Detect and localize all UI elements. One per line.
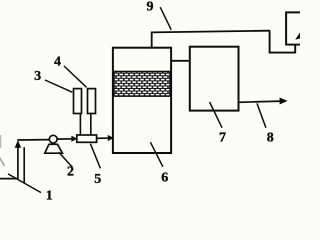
arrowhead: into mixer 5 <box>71 136 77 142</box>
svg-text:6: 6 <box>161 170 168 185</box>
leader line 3 <box>45 80 72 92</box>
wire: raw water inlet horizontal from left edge <box>0 178 18 180</box>
scan artifact: left edge gray marks <box>0 135 2 148</box>
leader line 9 <box>160 7 171 30</box>
dosing mixer 5 <box>77 135 97 142</box>
wire: column 6 to box 7 <box>171 60 190 62</box>
svg-text:1: 1 <box>46 188 53 200</box>
wire: up into condenser box <box>294 44 296 53</box>
wire: outlet 8 line <box>239 101 282 102</box>
arrowhead: feed up into suction line <box>15 140 22 148</box>
leader line 5 <box>90 144 100 169</box>
leader line 1 <box>8 174 41 193</box>
wire: pump discharge line <box>57 138 74 140</box>
wire: feed riser vertical <box>17 142 19 180</box>
svg-text:7: 7 <box>219 130 226 145</box>
svg-text:5: 5 <box>94 172 101 187</box>
tank 4 <box>88 89 96 114</box>
svg-text:4: 4 <box>54 55 61 70</box>
svg-text:8: 8 <box>267 131 274 146</box>
leader line 7 <box>210 102 222 128</box>
wire: riser from column 6 top <box>151 32 153 49</box>
wire 9: step down vertical <box>269 30 271 52</box>
wire: stem from tank 4 to mixer 5 <box>90 114 92 136</box>
condenser box top-right (cut by edge) <box>286 12 300 45</box>
column 6 packing band <box>114 72 170 97</box>
pump 2 circle <box>49 135 57 143</box>
svg-text:3: 3 <box>34 69 41 84</box>
column 6 vessel <box>113 48 171 153</box>
svg-text:2: 2 <box>67 165 74 180</box>
leader line 4 <box>64 66 87 87</box>
arrowhead: into column 6 <box>108 135 114 141</box>
condenser box bottom edge <box>285 44 300 46</box>
arrowhead: outlet 8 <box>280 98 288 105</box>
wire: stem from tank 3 to mixer 5 <box>79 114 81 136</box>
leader line 2 <box>59 152 73 167</box>
svg-text:9: 9 <box>147 0 154 14</box>
leader line 6 <box>150 142 163 167</box>
wire: mixer 5 to column 6 <box>97 137 111 139</box>
pump 2 base trapezoid <box>45 144 63 153</box>
wire 9: lower horizontal <box>269 52 296 54</box>
box 7 vessel <box>190 47 239 111</box>
arrowhead mark inside condenser <box>295 32 300 39</box>
wire 9: top horizontal <box>151 31 270 33</box>
tank 3 <box>74 89 82 114</box>
wire: parallel inlet line segment <box>23 147 25 183</box>
leader line 8 <box>257 103 266 127</box>
wire: pump suction line <box>17 139 49 141</box>
